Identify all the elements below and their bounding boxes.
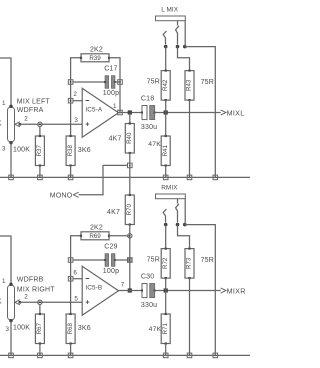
value 100p of C17 xyxy=(103,90,119,97)
jack LMIX sleeve stub xyxy=(184,21,186,47)
svg-text:75R: 75R xyxy=(201,257,214,264)
svg-text:75R: 75R xyxy=(201,79,214,86)
wiper arrow of WDFRB xyxy=(15,300,21,305)
label MONO xyxy=(50,192,73,199)
resistor R69 2K2 xyxy=(80,232,110,240)
svg-text:R37: R37 xyxy=(36,145,43,157)
value 330u of C18 xyxy=(141,124,157,131)
value 47K of R71 xyxy=(149,326,162,333)
svg-text:2: 2 xyxy=(24,116,28,123)
svg-text:R73: R73 xyxy=(186,257,193,269)
svg-text:R72: R72 xyxy=(162,257,169,269)
jack LMIX ring node xyxy=(176,45,180,49)
svg-text:R43: R43 xyxy=(186,79,193,91)
svg-text:330u: 330u xyxy=(141,124,157,131)
value 100K of R37 xyxy=(13,147,30,154)
resistor R71 47K xyxy=(161,313,170,345)
svg-text:3: 3 xyxy=(6,326,10,333)
wire feedback column to output xyxy=(119,82,121,113)
pin 3 label of IC5-A xyxy=(74,117,78,124)
svg-text:7: 7 xyxy=(121,281,125,288)
svg-text:5: 5 xyxy=(74,295,78,302)
svg-text:C18: C18 xyxy=(141,96,154,103)
svg-text:47K: 47K xyxy=(149,326,162,333)
wire R39 to output column xyxy=(109,58,120,82)
wire inverting node up to feedback resistor R39 xyxy=(71,58,81,101)
resistor R38 3K6 xyxy=(66,135,75,167)
wire to inverting input xyxy=(73,100,82,102)
wire tip node to R72 xyxy=(165,225,167,249)
resistor R72 75R xyxy=(161,248,170,280)
value 100K of R67 xyxy=(13,325,30,332)
svg-text:R67: R67 xyxy=(36,323,43,335)
wire R67 to ground rail xyxy=(39,344,41,356)
wire to inverting input xyxy=(73,278,82,280)
resistor R39 2K2 xyxy=(80,54,110,62)
svg-text:IC5-B: IC5-B xyxy=(85,284,102,291)
svg-text:C17: C17 xyxy=(104,65,117,72)
label RMIX xyxy=(161,184,178,191)
ground pad pot WDFRA xyxy=(9,175,14,180)
resistor R70 4K7 xyxy=(125,194,134,226)
wire R43 to ground rail xyxy=(189,100,191,177)
wire R40 to MONO node xyxy=(129,153,131,165)
svg-text:3: 3 xyxy=(74,117,78,124)
svg-text:100p: 100p xyxy=(103,90,119,97)
junction pad feedback/output xyxy=(128,288,132,292)
wire inverting node up to feedback resistor R69 xyxy=(71,236,81,279)
svg-text:R40: R40 xyxy=(126,132,133,144)
wire ring node to R73 xyxy=(178,225,190,249)
wire C18 to output arrow xyxy=(155,112,221,114)
value 75R of R43 xyxy=(201,79,214,86)
resistor R37 100K xyxy=(35,135,44,167)
svg-text:IC5-A: IC5-A xyxy=(85,106,102,113)
jack LMIX ring contact xyxy=(176,21,179,45)
value 75R of R73 xyxy=(201,257,214,264)
wire output to resistor R71 xyxy=(165,291,167,315)
op-amp IC5-B xyxy=(82,266,118,315)
value 330u of C30 xyxy=(141,302,157,309)
value 4K7 of R40 xyxy=(109,136,122,143)
svg-text:2K2: 2K2 xyxy=(90,224,103,231)
svg-text:C29: C29 xyxy=(104,243,117,250)
value 100p of C29 xyxy=(103,268,119,275)
jack LMIX tip contact xyxy=(163,31,166,44)
svg-text:R69: R69 xyxy=(89,233,101,240)
wire R69 to output column xyxy=(109,236,130,260)
svg-text:2: 2 xyxy=(24,294,28,301)
junction node wiper/R37 xyxy=(38,122,42,126)
resistor R42 75R xyxy=(161,70,170,102)
junction pad inverting input node xyxy=(68,98,73,103)
svg-text:R42: R42 xyxy=(162,79,169,91)
svg-text:330u: 330u xyxy=(141,302,157,309)
wire R41 to ground rail xyxy=(165,166,167,178)
pin 7 label of IC5-B xyxy=(121,281,125,288)
ground pad pot WDFRB xyxy=(9,353,14,358)
svg-text:1: 1 xyxy=(113,103,117,110)
pin 3 label of WDFRA xyxy=(2,146,6,153)
wire feedback column to output xyxy=(129,260,131,291)
ground pad R67 xyxy=(38,353,43,358)
jack RMIX sleeve stub xyxy=(184,199,186,225)
label MIX RIGHT xyxy=(17,287,55,294)
wire sleeve to ground rail xyxy=(185,225,216,356)
junction pad inverting input node xyxy=(68,276,73,281)
svg-text:WDFRA: WDFRA xyxy=(17,107,44,114)
plus sign non-inverting input xyxy=(86,300,90,304)
jack RMIX tip contact xyxy=(163,209,166,222)
wire op-amp output xyxy=(119,290,143,292)
junction pad C29 right xyxy=(128,258,133,263)
pin 6 label of IC5-B xyxy=(73,269,77,276)
wire R37 to ground rail xyxy=(39,166,41,178)
svg-text:2: 2 xyxy=(73,91,77,98)
ground pad sleeve RMIX xyxy=(213,353,218,358)
svg-text:75R: 75R xyxy=(147,256,160,263)
op-amp IC5-A xyxy=(82,88,118,137)
wire C17 to output column xyxy=(115,81,120,83)
wire op-amp output xyxy=(119,112,143,114)
jack RMIX tip node xyxy=(164,223,168,227)
value 3K6 of R68 xyxy=(78,325,91,332)
label C29 xyxy=(104,243,117,250)
potentiometer WDFRA xyxy=(8,105,15,145)
junction output A / R40 xyxy=(128,110,132,114)
svg-text:R71: R71 xyxy=(162,323,169,335)
ground pad R43 xyxy=(187,175,192,180)
svg-text:100p: 100p xyxy=(103,268,119,275)
wire junction to resistor R37 xyxy=(39,127,41,137)
junction output/R71 xyxy=(164,288,168,292)
wire R68 to ground rail xyxy=(70,344,72,356)
label L MIX xyxy=(161,6,179,13)
wire input to pot WDFRB pin 1 xyxy=(0,236,11,284)
wire to capacitor C17 xyxy=(73,81,105,83)
ground pad sleeve LMIX xyxy=(213,175,218,180)
svg-text:MIX RIGHT: MIX RIGHT xyxy=(17,287,55,294)
value 75R of R72 xyxy=(147,256,160,263)
resistor R67 100K xyxy=(35,313,44,345)
arrow MONO xyxy=(73,192,78,197)
svg-text:R70: R70 xyxy=(126,204,133,216)
svg-text:R38: R38 xyxy=(67,145,74,157)
ground pad R71 xyxy=(163,353,168,358)
value 4K7 of R70 xyxy=(107,209,120,216)
pin 5 label of IC5-B xyxy=(74,295,78,302)
svg-text:75R: 75R xyxy=(147,78,160,85)
svg-text:R39: R39 xyxy=(89,55,101,62)
junction pad C29 left xyxy=(68,258,73,263)
junction pad feedback/output xyxy=(118,110,123,115)
wire sleeve to ground rail xyxy=(185,47,216,178)
minus sign inverting input xyxy=(86,278,90,280)
svg-text:100K: 100K xyxy=(0,121,2,128)
wire output A to resistor R40 xyxy=(129,113,131,124)
wire R38 to ground rail xyxy=(70,166,72,178)
potentiometer WDFRB xyxy=(8,283,15,323)
svg-text:3K6: 3K6 xyxy=(78,147,91,154)
label MIXL xyxy=(227,109,245,118)
wire wiper to op-amp non-inverting input xyxy=(20,123,82,125)
value label (cut) of WDFRA xyxy=(0,121,2,128)
svg-text:3: 3 xyxy=(2,146,6,153)
wire to capacitor C29 xyxy=(73,259,105,261)
wire MONO branch xyxy=(79,165,128,194)
value 2K2 of R69 xyxy=(90,224,103,231)
resistor R73 75R xyxy=(185,248,194,280)
wire tip node to R42 xyxy=(165,47,167,71)
wire junction to resistor R67 xyxy=(39,305,41,315)
svg-text:47K: 47K xyxy=(148,141,161,148)
ground pad R68 xyxy=(68,353,73,358)
resistor R68 3K6 xyxy=(66,313,75,345)
wire R70 to junction R69 xyxy=(129,225,131,236)
junction node C29 right xyxy=(128,258,132,262)
svg-text:MIXR: MIXR xyxy=(227,287,246,296)
wire R72 to output line xyxy=(165,278,167,290)
ground pad R41 xyxy=(163,175,168,180)
svg-text:1: 1 xyxy=(2,278,6,285)
capacitor C29 100p xyxy=(104,254,116,267)
wire C30 to output arrow xyxy=(155,290,221,292)
output arrow MIXR xyxy=(221,288,226,293)
pin 2 label of WDFRB xyxy=(24,294,28,301)
value label (cut) of WDFRB xyxy=(0,299,2,306)
svg-text:R41: R41 xyxy=(162,145,169,157)
label C17 xyxy=(104,65,117,72)
wiper arrow of WDFRA xyxy=(15,122,21,127)
plus sign non-inverting input xyxy=(86,122,90,126)
svg-text:3K6: 3K6 xyxy=(78,325,91,332)
svg-text:100K: 100K xyxy=(13,325,30,332)
wire pot WDFRB pin 3 to ground rail xyxy=(10,321,12,355)
junction node wiper/R67 xyxy=(38,300,42,304)
wire pot WDFRA pin 3 to ground rail xyxy=(10,143,12,177)
wire C29 to output column xyxy=(115,259,130,261)
svg-text:WDFRB: WDFRB xyxy=(17,276,44,283)
ground pad R37 xyxy=(38,175,43,180)
wire MONO node to resistor R70 xyxy=(129,165,131,195)
svg-text:MIX LEFT: MIX LEFT xyxy=(17,98,51,105)
jack RMIX ring contact xyxy=(176,199,179,223)
svg-text:4K7: 4K7 xyxy=(109,136,122,143)
value 47K of R41 xyxy=(148,141,161,148)
label C18 xyxy=(141,96,154,103)
jack LMIX tip node xyxy=(164,45,168,49)
wire op-amp inverting node to resistor R38 xyxy=(70,101,72,136)
jack RMIX body xyxy=(156,194,186,199)
value 2K2 of R39 xyxy=(90,46,103,53)
jack RMIX sleeve node xyxy=(183,223,187,227)
junction node R70/R69 xyxy=(128,234,132,238)
capacitor C17 100p xyxy=(104,76,116,89)
value 75R of R42 xyxy=(147,78,160,85)
pin 1 label of IC5-A xyxy=(113,103,117,110)
pin 1 label of WDFRA xyxy=(2,100,6,107)
svg-text:4K7: 4K7 xyxy=(107,209,120,216)
wire wiper to op-amp non-inverting input xyxy=(20,301,82,303)
pin 2 label of WDFRA xyxy=(24,116,28,123)
junction pad MONO node xyxy=(128,163,133,168)
wire op-amp inverting node to resistor R68 xyxy=(70,279,72,314)
wire R71 to ground rail xyxy=(165,344,167,356)
jack RMIX ring node xyxy=(176,223,180,227)
jack LMIX body xyxy=(156,16,186,21)
junction output/R41 xyxy=(164,110,168,114)
circuit schematic: stereo mix output stage xyxy=(0,0,250,368)
ground rail xyxy=(0,354,250,356)
resistor R40 4K7 xyxy=(125,122,134,154)
junction pad C17 left xyxy=(68,80,73,85)
wire R73 to ground rail xyxy=(189,278,191,355)
wire R42 to output line xyxy=(165,100,167,112)
minus sign inverting input xyxy=(86,100,90,102)
resistor R43 75R xyxy=(185,70,194,102)
wire ring node to R43 xyxy=(178,47,190,71)
svg-text:MIXL: MIXL xyxy=(227,109,245,118)
label MIXR xyxy=(227,287,246,296)
svg-text:MONO: MONO xyxy=(50,192,73,199)
svg-text:100K: 100K xyxy=(13,147,30,154)
svg-text:1: 1 xyxy=(2,100,6,107)
ground pad R38 xyxy=(68,175,73,180)
pin 2 label of IC5-A xyxy=(73,91,77,98)
svg-text:100K: 100K xyxy=(0,299,2,306)
label WDFRA xyxy=(17,107,44,114)
wire output to resistor R41 xyxy=(165,113,167,137)
capacitor C30 330u xyxy=(141,284,156,298)
capacitor C18 330u xyxy=(141,106,156,120)
label C30 xyxy=(141,274,154,281)
pin 1 label of WDFRB xyxy=(2,278,6,285)
junction pad C17 right xyxy=(118,80,123,85)
output arrow MIXL xyxy=(221,110,226,115)
ground rail xyxy=(0,176,250,178)
wire input to pot WDFRA pin 1 xyxy=(0,58,11,106)
svg-text:RMIX: RMIX xyxy=(161,184,178,191)
value 3K6 of R38 xyxy=(78,147,91,154)
jack LMIX sleeve node xyxy=(183,45,187,49)
svg-text:2K2: 2K2 xyxy=(90,46,103,53)
label WDFRB xyxy=(17,276,44,283)
svg-text:C30: C30 xyxy=(141,274,154,281)
svg-text:R68: R68 xyxy=(67,323,74,335)
svg-text:L MIX: L MIX xyxy=(161,6,179,13)
ground pad R73 xyxy=(187,353,192,358)
pin 3 label of WDFRB xyxy=(6,326,10,333)
svg-text:6: 6 xyxy=(73,269,77,276)
label MIX LEFT xyxy=(17,98,51,105)
resistor R41 47K xyxy=(161,135,170,167)
